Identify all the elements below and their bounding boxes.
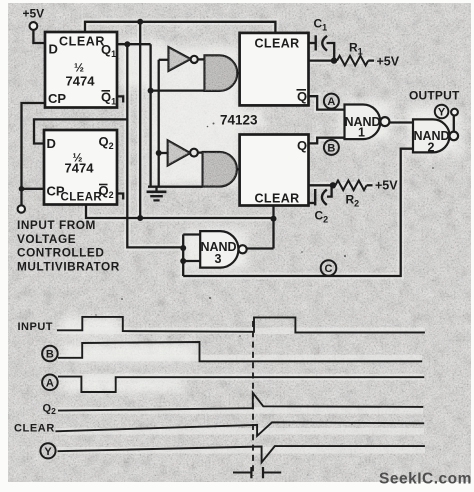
svg-text:1: 1 xyxy=(358,126,365,140)
svg-text:3: 3 xyxy=(215,252,222,266)
svg-text:Y: Y xyxy=(438,107,446,119)
svg-text:CLEAR: CLEAR xyxy=(59,35,105,49)
svg-text:INPUT FROM: INPUT FROM xyxy=(17,218,96,232)
svg-text:74123: 74123 xyxy=(220,113,258,128)
svg-text:2: 2 xyxy=(428,141,435,155)
svg-text:½: ½ xyxy=(74,61,84,75)
svg-text:+5V: +5V xyxy=(375,179,398,193)
svg-text:INPUT: INPUT xyxy=(18,321,54,333)
svg-text:A: A xyxy=(327,96,335,108)
svg-text:VOLTAGE: VOLTAGE xyxy=(17,232,76,246)
svg-text:CLEAR: CLEAR xyxy=(255,37,300,51)
svg-text:OUTPUT: OUTPUT xyxy=(409,89,460,103)
svg-text:B: B xyxy=(46,349,54,361)
svg-text:+5V: +5V xyxy=(377,55,400,69)
svg-text:+5V: +5V xyxy=(23,7,45,21)
svg-text:MULTIVIBRATOR: MULTIVIBRATOR xyxy=(17,259,120,273)
svg-text:Y: Y xyxy=(44,446,52,458)
svg-text:D: D xyxy=(47,136,56,151)
svg-text:C: C xyxy=(325,263,333,275)
svg-text:SeekIC.com: SeekIC.com xyxy=(379,471,472,488)
svg-text:D: D xyxy=(49,42,58,57)
svg-text:A: A xyxy=(46,377,54,389)
svg-text:CP: CP xyxy=(48,91,66,106)
svg-text:B: B xyxy=(327,142,335,154)
svg-text:7474: 7474 xyxy=(65,161,95,176)
svg-text:CLEAR: CLEAR xyxy=(255,192,300,206)
svg-text:CLEAR: CLEAR xyxy=(61,192,103,204)
svg-text:7474: 7474 xyxy=(66,74,96,89)
svg-text:CLEAR: CLEAR xyxy=(14,423,55,435)
svg-text:Q: Q xyxy=(297,89,307,104)
svg-text:CONTROLLED: CONTROLLED xyxy=(17,246,104,260)
svg-text:Q: Q xyxy=(297,138,307,153)
